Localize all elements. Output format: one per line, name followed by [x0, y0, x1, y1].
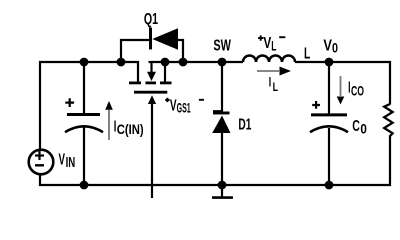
svg-text:0: 0: [332, 41, 338, 56]
svg-text:GS1: GS1: [177, 101, 191, 116]
svg-text:V: V: [323, 38, 332, 55]
svg-text:C: C: [352, 118, 360, 135]
svg-text:CO: CO: [351, 84, 364, 99]
svg-text:Q1: Q1: [144, 11, 158, 28]
svg-text:L: L: [273, 82, 278, 94]
svg-text:IN: IN: [66, 154, 76, 171]
svg-text:L: L: [271, 38, 276, 53]
svg-text:V: V: [59, 152, 66, 169]
svg-text:C(IN): C(IN): [117, 122, 144, 137]
svg-text:L: L: [304, 46, 310, 63]
svg-text:0: 0: [360, 122, 367, 137]
svg-text:D1: D1: [238, 117, 251, 134]
svg-text:I: I: [269, 74, 271, 89]
svg-text:SW: SW: [213, 38, 231, 55]
